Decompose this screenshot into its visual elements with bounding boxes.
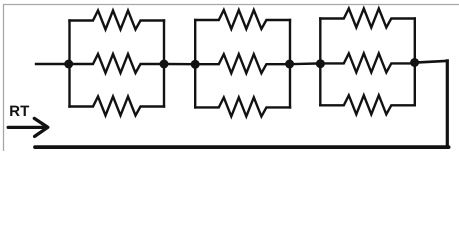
resistor R9: [320, 95, 415, 114]
node group2 right: [285, 60, 294, 69]
wire bottom return: [35, 145, 449, 149]
wire group2-group3: [290, 62, 320, 65]
wire group1-group2: [164, 63, 195, 66]
wire input lead: [36, 63, 70, 65]
current arrow: [8, 118, 48, 136]
wire group1 left rail: [68, 21, 70, 107]
node group3 left: [316, 59, 325, 68]
resistor R4: [195, 10, 290, 29]
resistor R8: [320, 53, 415, 72]
wire group3 right rail: [414, 19, 416, 106]
resistor R3: [70, 97, 165, 116]
wire output right drop: [446, 61, 449, 147]
node group1 right: [160, 60, 169, 69]
node group2 left: [191, 60, 200, 69]
resistor R7: [320, 9, 415, 28]
wire output top: [415, 61, 448, 63]
wire group2 left rail: [194, 20, 196, 107]
node group1 left: [64, 60, 73, 69]
resistor R5: [195, 54, 290, 73]
resistor R6: [195, 97, 290, 116]
resistor R2: [70, 54, 165, 73]
resistor R1: [70, 11, 165, 30]
node group3 right: [410, 58, 419, 67]
wire group3 left rail: [319, 19, 321, 106]
wire group1 right rail: [163, 21, 165, 107]
label RT: [10, 106, 29, 116]
wire group2 right rail: [289, 20, 291, 107]
